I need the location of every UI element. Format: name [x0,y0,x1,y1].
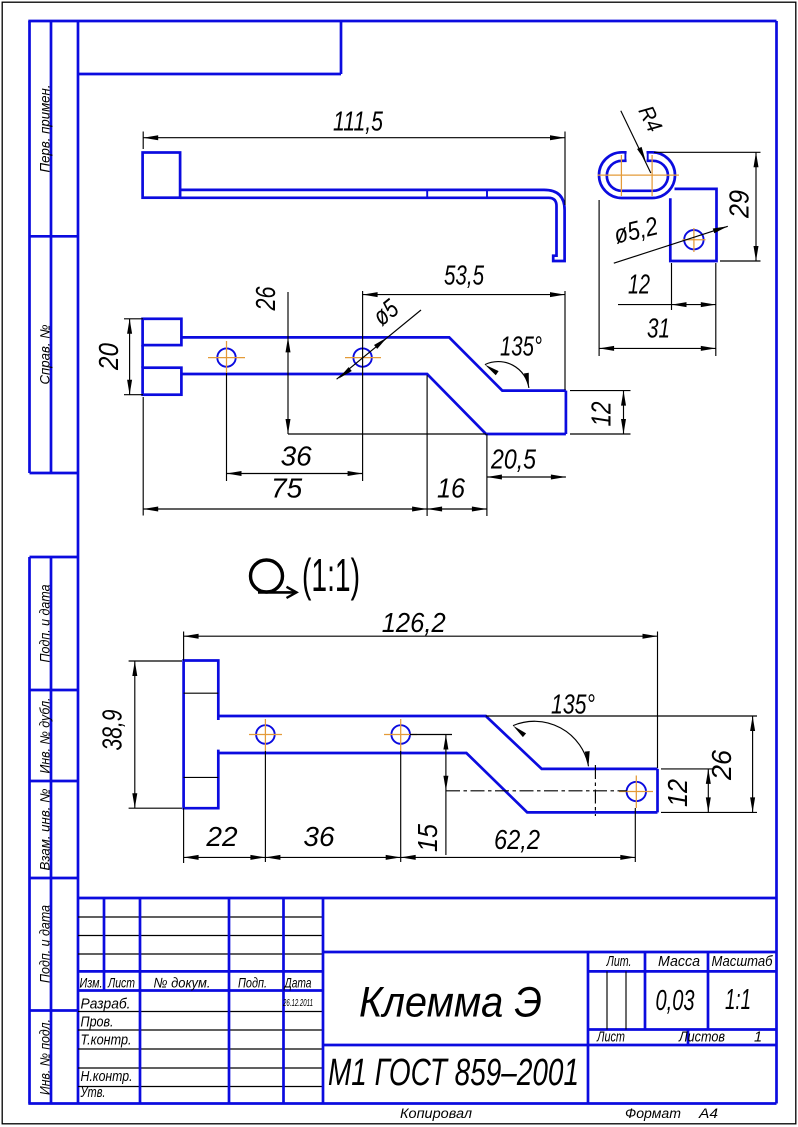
svg-text:Взам. инв. №: Взам. инв. № [38,788,53,870]
view2 strip bottom edge [181,374,566,434]
view3 plate hole centerlines [683,228,706,252]
title block thin row blank bottom [78,1067,323,1069]
svg-text:12: 12 [628,269,650,300]
dim 126,2 extension left [183,632,185,661]
scale icon tail [258,591,295,594]
dim 26 dev extension top [486,715,757,717]
view1 head block [143,153,181,198]
dim 62,2 arrows [401,855,636,860]
svg-text:А4: А4 [698,1106,718,1121]
label Инв. № подл. [38,1019,53,1095]
svg-text:Инв. № дубл.: Инв. № дубл. [38,698,53,774]
dim 12 side line [618,304,716,306]
view4 hole 2 centerlines [384,719,417,751]
title block thin row tkontr bottom [78,1048,323,1050]
title block lit thin vertical 2 [625,971,627,1029]
view2 hole2 extension line [362,291,364,481]
title block top line [78,897,777,900]
svg-text:Подп. и дата: Подп. и дата [38,584,53,662]
dim 111,5 extension left [142,132,144,150]
svg-text:29: 29 [724,190,755,219]
stamp column C-G inner divider [50,557,53,1104]
svg-text:15: 15 [412,824,443,852]
view4 head outline [184,661,219,809]
dim 75 16 extension mid [426,375,428,516]
leader phi5,2 line [614,226,728,263]
frame top line [28,20,776,23]
dim phi5 leader [337,310,421,379]
dim 12 mid extension top [570,390,631,392]
stamp box F bottom [30,1009,79,1012]
dim 36 line [227,473,363,475]
angle 135 dev arc [513,721,589,766]
svg-text:111,5: 111,5 [333,106,383,137]
dim 126,2 extension right [657,632,659,769]
svg-text:Масштаб: Масштаб [712,954,774,970]
title block list row top blue right [588,1028,777,1031]
dim 53,5 line [363,294,565,296]
title block thin row prov bottom [78,1029,323,1031]
dim 20 text [93,343,124,371]
dim 12 side arrows [672,302,716,307]
view4 hole 1 centerlines [249,719,282,751]
svg-text:1:1: 1:1 [725,984,751,1016]
svg-text:26: 26 [706,750,737,781]
view1 bend tick 1 [426,190,428,198]
leader R4 line [621,111,651,173]
frame left line [77,21,80,1104]
title block vertical name zone right [587,952,590,1104]
view2 head tab2 [143,368,182,395]
title block vertical data right [322,898,325,1104]
svg-text:Утв.: Утв. [80,1085,106,1101]
dim 20 extension top [124,318,143,320]
dim 20 line [129,319,131,395]
svg-text:26.12.2011: 26.12.2011 [282,998,313,1009]
title block vertical podp [282,898,285,1104]
top attachment box bottom [78,73,341,76]
svg-text:Лист: Лист [107,975,135,991]
dim 12 side extension left [671,263,673,310]
svg-text:Лит.: Лит. [606,954,632,970]
dim 111,5 arrows [143,135,565,140]
label Взам. инв. № [38,788,53,870]
dim 22 36 62,2 extension head left [183,808,185,863]
svg-text:Разраб.: Разраб. [81,997,131,1013]
title block name zone bottom [323,1044,777,1047]
view2 strip top edge [181,337,566,390]
stamp column A/B outer left edge [28,21,31,473]
dim 20 arrows [127,319,132,395]
view4 head bend line 2 [184,776,219,778]
stamp column A/B inner divider [50,21,53,473]
svg-text:38,9: 38,9 [97,710,128,751]
stamp box B bottom [30,472,79,475]
svg-text:Подп.: Подп. [238,975,267,991]
svg-text:135°: 135° [500,331,542,362]
dim extension end hole [634,808,636,862]
svg-text:Т.контр.: Т.контр. [81,1033,132,1049]
dim 75 16 extension left [142,397,144,516]
dim 26 arrows [286,337,291,434]
dim 29 arrows [754,152,759,261]
svg-text:Справ. №: Справ. № [38,324,53,384]
svg-text:Инв. № подл.: Инв. № подл. [38,1019,53,1095]
view4 strip bottom edge [218,753,657,812]
svg-text:126,2: 126,2 [382,607,446,638]
svg-text:№ докум.: № докум. [154,975,211,991]
dim 31 arrows [599,346,716,351]
dim 15 text [412,824,443,852]
svg-text:R4: R4 [634,102,668,136]
view3 hook centerlines [598,155,680,196]
frame bottom line [28,1102,776,1105]
title block vertical list-listov [687,1030,690,1046]
title block thin row razrab bottom [78,1011,323,1013]
dim 75 16 line [143,508,487,510]
view4 right end edge [656,769,659,813]
dim 12 dev extension top [661,768,715,770]
dim 12 dev text [662,779,693,807]
view2 hole 1 centerlines [208,341,245,373]
dim 12 side extension right [715,263,717,356]
svg-text:135°: 135° [551,689,595,720]
svg-text:Масса: Масса [658,954,700,970]
dim 36 dev arrows [265,855,400,860]
dim 12 dev extension bottom [661,811,757,813]
stamp box D bottom [30,780,79,783]
stamp column C-G outer left edge [28,557,31,1104]
svg-text:12: 12 [662,779,693,807]
dim 15 extension [410,734,452,736]
dim 75 arrows [143,507,427,512]
view2 hole1 extension line [226,373,228,481]
dim 29 extension bottom [720,260,761,262]
svg-text:53,5: 53,5 [444,260,484,291]
label Подп. и дата 2 [38,905,53,983]
scale icon circle [251,560,283,592]
stamp box A bottom [30,235,79,238]
view1 strip outline [180,190,564,261]
dim 20,5 arrows [487,475,566,480]
leader phi5,2 text [611,210,661,249]
dim 31 line [599,347,716,349]
frame right line [775,21,778,1104]
view2 head left edge middle segment [141,345,144,368]
svg-text:Подп. и дата: Подп. и дата [38,905,53,983]
title block vertical izm [103,898,106,991]
dim phi5 text [367,293,405,332]
label Подп. и дата 1 [38,584,53,662]
view4 hole 2 [391,725,410,744]
svg-text:ø5: ø5 [367,293,405,332]
svg-text:Пров.: Пров. [81,1015,114,1031]
view3 plate outline [670,189,716,261]
label Справ. № [38,324,53,384]
dim 38,9 extension top [129,660,182,662]
view4 end hole centerlines [619,776,653,809]
svg-text:12: 12 [586,401,617,426]
dim 75 16 extension right [486,434,488,516]
title block thin row 1 [78,916,323,918]
view2 hole 2 [353,348,371,366]
dim 22 36 62,2 line [184,856,636,858]
svg-text:0,03: 0,03 [656,985,695,1017]
view4 hole 1 [256,725,275,744]
dim extension hole2 [400,751,402,862]
view3 hook inner stadium [607,161,668,191]
view3 plate hole [684,230,703,249]
view3 hook cut line right [647,151,649,161]
title block lit thin vertical 1 [606,971,608,1029]
view3 hook cut line left [624,151,626,161]
dim 38,9 text [97,710,128,751]
view2 right end edge [565,391,568,434]
dim 16 arrows [427,507,487,512]
dim 20 extension bottom [124,394,143,396]
dim 12 dev arrows [706,769,711,813]
dim 12 dev line [707,769,709,813]
svg-text:Перв. примен.: Перв. примен. [38,85,53,173]
svg-text:Листов: Листов [678,1030,725,1046]
stamp box C bottom [30,689,79,692]
scale icon open arrow [287,587,297,598]
dim 29 extension top [654,151,761,153]
dim 26 line [287,292,289,434]
title block vertical lit-massa [644,952,647,1030]
dim 53,5 arrows [363,292,565,297]
dim 12 mid extension bottom and long left extension [288,433,486,435]
angle 135 mid arrows [483,363,531,389]
svg-text:Н.контр.: Н.контр. [81,1069,133,1085]
dim 15 line [445,735,447,856]
dim 38,9 arrows [132,661,137,808]
svg-text:1: 1 [754,1030,762,1046]
title block vertical massa-masshtab [707,952,710,1030]
dim 29 line [755,152,757,261]
svg-text:Изм.: Изм. [80,975,103,991]
view3 hook outer stadium [599,152,675,198]
svg-text:26: 26 [250,286,281,311]
view1 bend tick 2 [486,190,488,198]
title block line above name zone [323,951,777,954]
dim 26 dev line [752,716,754,812]
svg-text:20: 20 [93,343,124,371]
svg-text:Копировал: Копировал [400,1106,472,1121]
view4 end hole [627,782,646,801]
dim 12 mid arrows [621,391,626,434]
title block thin row 2 [78,935,323,937]
dim 29 text [724,190,755,219]
dim phi5 arrows [337,335,389,380]
view4 head bend line 1 [184,692,219,694]
svg-text:ø5,2: ø5,2 [611,210,661,249]
title block header row bottom [78,989,323,992]
dim 26 dev text [706,750,737,781]
title block lit header bottom right [588,970,777,973]
title block vertical ndokum [228,898,231,1104]
dim 126,2 arrows [184,634,658,639]
svg-text:36: 36 [281,441,313,472]
view3 hook gap white [627,149,647,164]
label Перв. примен. [38,85,53,173]
view4 bend centerline vertical [594,765,596,816]
dim 111,5 extension right [564,132,566,206]
leader phi5,2 arrow [713,224,729,233]
view4 strip top edge [218,716,657,769]
view2 hole 1 [217,348,235,366]
leader R4 text [634,102,668,136]
stamp box E bottom [30,877,79,880]
top attachment box vertical [340,21,343,74]
dim 22 arrows [184,855,266,860]
svg-text:31: 31 [647,313,670,344]
dim 15 arrows [443,735,448,791]
view2 hole 2 centerline [345,357,381,359]
dim 126,2 line [184,635,658,637]
angle 135 mid arc [485,362,529,388]
dim 12 mid line [623,391,625,434]
dim 20,5 line [487,476,566,478]
dim 26 text [250,286,281,311]
label Инв. № дубл. [38,698,53,774]
svg-text:Формат: Формат [625,1106,681,1121]
view2 head tab1 [143,319,182,345]
angle 135 dev arrows [511,724,591,767]
svg-text:Лист: Лист [596,1030,625,1046]
svg-text:М1 ГОСТ 859–2001: М1 ГОСТ 859–2001 [328,1052,579,1094]
dim 36 arrows [227,471,363,476]
svg-text:20,5: 20,5 [490,444,536,475]
dim 111,5 line [143,137,565,139]
svg-text:36: 36 [303,821,335,852]
stamp box C top [30,556,79,559]
title block thin row 3 [78,953,323,955]
title block thin row nkontr bottom [78,1086,323,1088]
svg-text:(1:1): (1:1) [302,549,360,601]
svg-text:62,2: 62,2 [494,824,540,855]
dim 12 mid text [586,401,617,426]
svg-text:Дата: Дата [283,975,312,991]
view4 axis centerline horizontal [446,790,627,792]
dim 53,5 extension right [564,291,566,390]
dim 31 extension left [598,200,600,356]
leader R4 arrow [637,147,648,163]
svg-text:22: 22 [205,821,238,852]
title block header row top left [78,970,323,973]
svg-text:16: 16 [437,473,465,504]
dim 26 dev arrows [750,716,755,812]
dim 38,9 line [134,661,136,808]
title block vertical list [139,898,142,1104]
dim 38,9 extension bottom [129,807,182,809]
svg-text:75: 75 [271,473,303,504]
svg-text:Клемма Э: Клемма Э [359,979,542,1027]
dim extension hole1 [264,751,266,862]
